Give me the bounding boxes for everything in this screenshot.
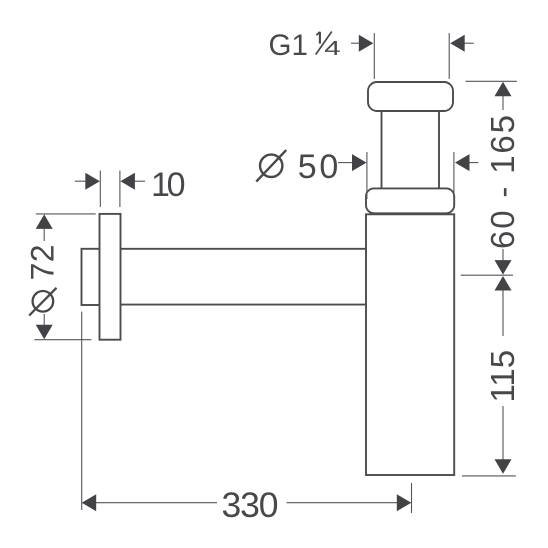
svg-text:330: 330 xyxy=(222,485,279,525)
label dia 50 symbol circle xyxy=(260,155,282,177)
vertical pipe left edge xyxy=(381,111,383,188)
siphon body outline group xyxy=(82,82,455,475)
svg-text:72: 72 xyxy=(25,244,61,280)
top nut xyxy=(368,82,453,111)
10 right arrow tail xyxy=(134,180,145,182)
lower nut xyxy=(366,188,454,213)
dia 72 dim line upper xyxy=(43,228,45,241)
115 down arrowhead xyxy=(495,459,512,474)
svg-text:4: 4 xyxy=(324,38,340,60)
115 dim line upper xyxy=(502,290,504,336)
330 dim line right segment xyxy=(287,502,398,504)
dia 50 left arrowhead xyxy=(352,154,367,171)
10 left extension line xyxy=(99,171,101,208)
trap body cylinder xyxy=(366,214,454,475)
svg-text:10: 10 xyxy=(151,166,186,204)
330 right arrowhead xyxy=(397,494,412,511)
60-165 top reference line xyxy=(466,80,517,82)
330 right extension line xyxy=(411,483,413,513)
60-165 dim line upper xyxy=(502,96,504,110)
330 left extension line xyxy=(81,312,83,510)
wall pipe stub xyxy=(82,249,100,305)
G1 1/4 left arrowhead xyxy=(359,35,374,52)
dia 72 up arrowhead xyxy=(36,214,53,229)
330 left arrowhead xyxy=(82,494,97,511)
label dia 72 symbol circle xyxy=(33,291,54,312)
label 1/4 numerator xyxy=(319,32,321,44)
10 right extension line xyxy=(119,171,121,208)
G1 1/4 left arrow tail xyxy=(351,42,361,44)
G1 1/4 right arrow tail xyxy=(464,42,474,44)
dia 72 down arrowhead xyxy=(36,325,53,340)
60-165 dim line lower xyxy=(502,249,504,261)
10 right arrowhead xyxy=(120,173,134,190)
horizontal pipe top line xyxy=(121,248,367,250)
dia 50 right arrow tail xyxy=(468,162,478,164)
dia 50 right extension line xyxy=(453,152,455,199)
dia 72 bottom extension line xyxy=(34,339,91,341)
label dia 50 symbol slash xyxy=(256,150,286,182)
60-165 up arrowhead xyxy=(495,82,512,97)
dia 72 top extension line xyxy=(36,213,96,215)
svg-text:G1: G1 xyxy=(269,29,308,62)
dia 50 left arrow tail xyxy=(338,162,354,164)
dia 50 right arrowhead xyxy=(455,154,470,171)
vertical pipe right edge xyxy=(438,111,440,188)
G1 1/4 extension line right xyxy=(448,33,450,79)
svg-text:115: 115 xyxy=(484,350,521,403)
G1 1/4 right arrowhead xyxy=(450,35,465,52)
label dia 72 symbol slash xyxy=(29,288,56,316)
10 left arrowhead xyxy=(85,173,100,190)
dimension graphics xyxy=(34,33,517,513)
label 1/4 slash xyxy=(316,32,332,55)
60-165 / 115 middle reference line xyxy=(461,274,513,276)
dia 50 left extension line xyxy=(366,152,368,199)
115 bottom reference line xyxy=(462,475,516,477)
horizontal pipe bottom line xyxy=(121,304,367,306)
arrowheads xyxy=(36,35,512,512)
330 dim line left segment xyxy=(96,502,218,504)
G1 1/4 extension line left xyxy=(373,33,375,79)
60-165 down arrowhead xyxy=(495,260,512,275)
115 dim line lower xyxy=(502,406,504,460)
dia 72 dim line lower xyxy=(43,314,45,326)
10 left arrow tail xyxy=(75,180,86,182)
115 up arrowhead xyxy=(495,276,512,291)
wall flange xyxy=(100,214,121,340)
